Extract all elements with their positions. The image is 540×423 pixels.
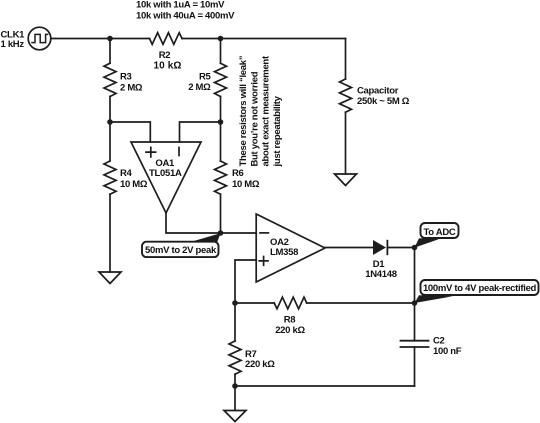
svg-text:To ADC: To ADC [424, 227, 456, 238]
wire node A down to R3 [109, 39, 111, 64]
junction node E [218, 230, 224, 236]
svg-text:10 MΩ: 10 MΩ [120, 179, 148, 190]
svg-text:R5: R5 [199, 71, 212, 82]
svg-text:100 nF: 100 nF [433, 346, 462, 357]
OA2 plus symbol [259, 257, 268, 266]
wire R8 to node H [235, 302, 274, 304]
wire node B to capacitor-resistor [221, 38, 346, 40]
wire OA2 output to diode [325, 247, 373, 249]
svg-text:LM358: LM358 [270, 247, 298, 258]
svg-text:220 kΩ: 220 kΩ [245, 359, 275, 370]
junction node A [107, 36, 113, 42]
wire node B down to R5 [220, 39, 222, 64]
resistor R4 [104, 161, 116, 194]
resistor R5 [215, 63, 227, 96]
svg-text:100mV to 4V peak-rectified: 100mV to 4V peak-rectified [423, 283, 537, 294]
wire OA2 plus input feedback [235, 260, 256, 303]
svg-text:2 MΩ: 2 MΩ [120, 82, 143, 93]
resistor R6 [215, 161, 227, 194]
junction node H [232, 300, 238, 306]
capacitor-resistor wire from top [345, 39, 347, 80]
annotation 10k note [136, 0, 235, 21]
wire diode to node F [388, 247, 414, 249]
wire OA1 output to node E [166, 213, 221, 233]
svg-text:R4: R4 [120, 168, 133, 179]
wire R4 to ground [109, 194, 111, 272]
wire node D to OA1 minus input [180, 122, 221, 142]
svg-text:about exact measurement: about exact measurement [261, 55, 272, 166]
OA1 minus symbol [178, 148, 180, 156]
wire R3 to node C [109, 96, 111, 122]
svg-text:10 MΩ: 10 MΩ [232, 179, 260, 190]
resistor R3 [104, 63, 116, 96]
wire node G to R8 [307, 302, 415, 304]
ground (bottom) [224, 411, 246, 422]
resistor R2 [150, 33, 182, 45]
capacitor C2 plates [401, 341, 429, 347]
wire R2 to node B [182, 38, 221, 40]
svg-text:10k with 1uA = 10mV: 10k with 1uA = 10mV [136, 0, 225, 11]
wire CLK1 to node A [51, 38, 110, 40]
op-amp OA1 [131, 142, 201, 213]
svg-text:R2: R2 [159, 50, 171, 61]
wire node C down to R4 [109, 122, 111, 161]
wire capacitor-resistor to ground [345, 112, 347, 174]
svg-text:TL051A: TL051A [149, 168, 182, 179]
resistor R7 [229, 341, 241, 374]
wire node A to R2 [110, 38, 150, 40]
svg-text:250k ~ 5M Ω: 250k ~ 5M Ω [357, 96, 410, 107]
svg-text:10 kΩ: 10 kΩ [154, 61, 182, 72]
callout To ADC [415, 223, 459, 248]
callout 100mV to 4V peak-rectified [415, 280, 539, 303]
OA2 minus symbol [260, 232, 268, 234]
resistor (Capacitor 250k~5M) [340, 79, 352, 112]
op-amp OA2 [256, 214, 325, 282]
junction node B [218, 36, 224, 42]
svg-text:10k with 40uA = 400mV: 10k with 40uA = 400mV [136, 10, 235, 21]
clock source CLK1 [28, 27, 51, 50]
junction node I [232, 383, 238, 389]
junction node F [412, 245, 418, 251]
svg-text:But you’re not worried: But you’re not worried [249, 71, 260, 166]
note These resistors (rotated) [238, 55, 283, 167]
OA1 plus symbol [146, 147, 156, 157]
wire node D down to R6 [220, 122, 222, 161]
wire R5 to node D [220, 96, 222, 122]
svg-text:R8: R8 [284, 315, 296, 326]
wire node C to OA1 plus input [110, 122, 150, 142]
svg-text:1N4148: 1N4148 [365, 269, 396, 280]
callout 50mV to 2V peak [142, 233, 221, 257]
svg-text:R7: R7 [245, 349, 257, 360]
junction node D [218, 119, 224, 125]
svg-text:220 kΩ: 220 kΩ [275, 325, 305, 336]
svg-text:R3: R3 [120, 71, 132, 82]
bottom wire node I to C2 branch [235, 385, 415, 387]
svg-text:just repeatability: just repeatability [272, 95, 283, 167]
wire node H down to R7 [234, 303, 236, 341]
ground (left) [99, 272, 121, 284]
wire node G down to C2 [414, 303, 416, 341]
wire R7 to node I [234, 374, 236, 386]
wire R6 to node E [220, 194, 222, 233]
svg-text:2 MΩ: 2 MΩ [188, 82, 211, 93]
wire node I to ground [234, 386, 236, 411]
junction node G [412, 300, 418, 306]
svg-text:These resistors will “leak”: These resistors will “leak” [238, 55, 249, 166]
svg-text:R6: R6 [232, 168, 244, 179]
wire C2 to bottom wire [414, 347, 416, 386]
svg-text:50mV to 2V peak: 50mV to 2V peak [145, 245, 217, 256]
wire node E to OA2 minus input [221, 232, 257, 234]
resistor R8 [274, 297, 306, 309]
junction node C [107, 119, 113, 125]
CLK1 square wave glyph [32, 34, 48, 42]
svg-text:Capacitor: Capacitor [357, 86, 399, 97]
wire node F down to node G [414, 248, 416, 304]
svg-text:1 kHz: 1 kHz [1, 39, 25, 50]
ground (capacitor branch) [335, 174, 357, 186]
diode D1 [373, 240, 386, 255]
